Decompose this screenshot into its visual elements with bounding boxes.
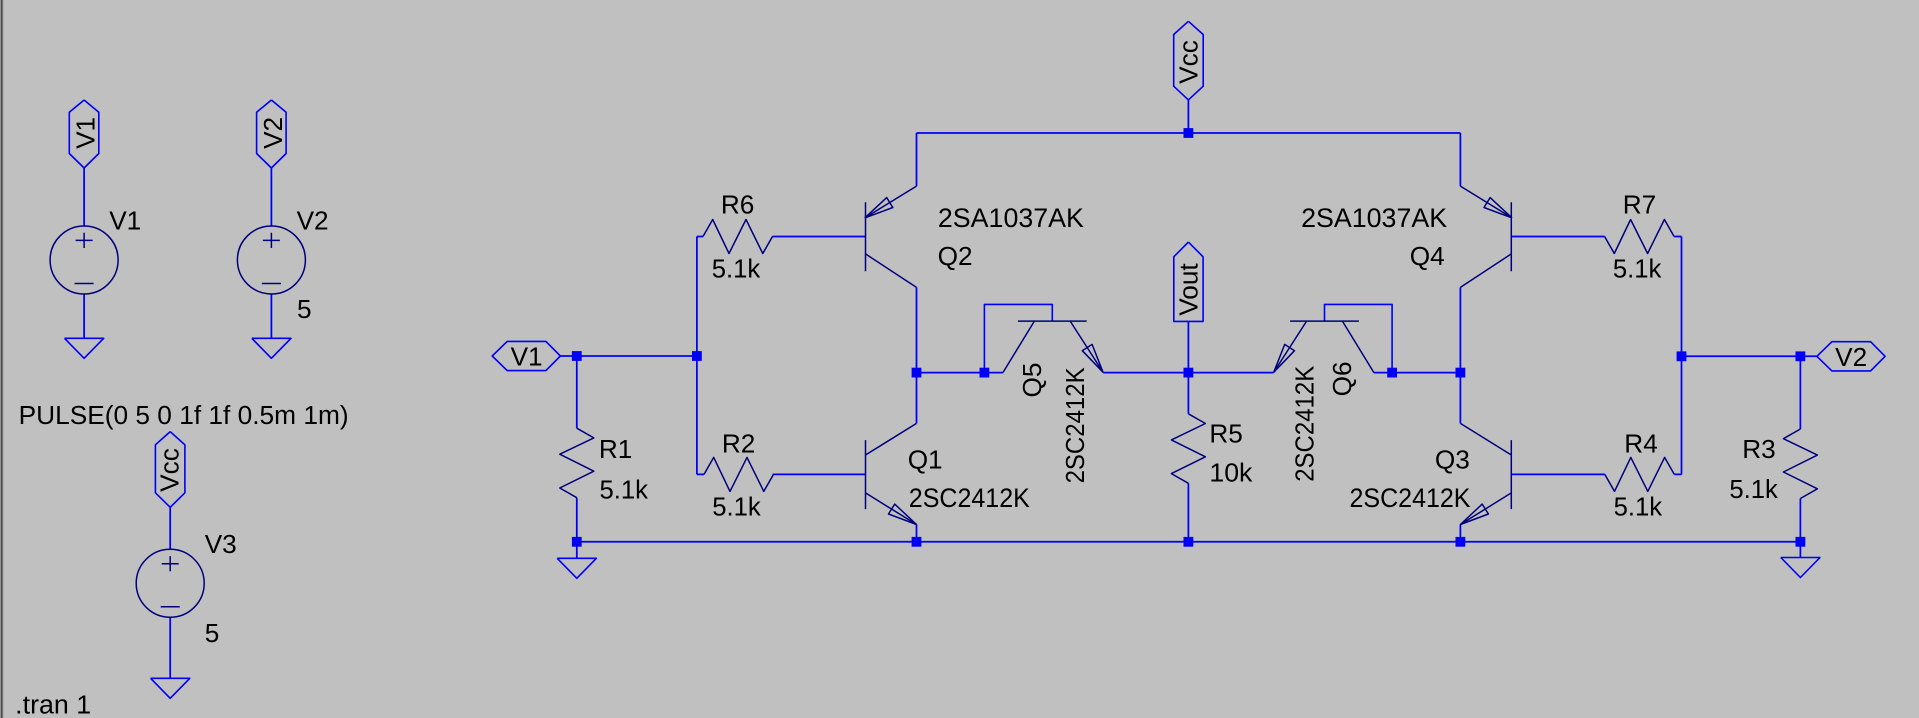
svg-text:Vcc: Vcc	[1174, 40, 1204, 84]
svg-text:V1: V1	[511, 341, 543, 371]
svg-text:2SA1037AK: 2SA1037AK	[938, 202, 1084, 233]
svg-text:R5: R5	[1209, 418, 1242, 448]
svg-text:Q1: Q1	[908, 444, 943, 474]
svg-text:V2: V2	[258, 117, 288, 149]
svg-text:Vout: Vout	[1174, 263, 1204, 316]
svg-text:R1: R1	[599, 434, 632, 464]
svg-text:R6: R6	[721, 190, 754, 220]
svg-text:2SC2412K: 2SC2412K	[1350, 482, 1471, 513]
svg-text:R3: R3	[1742, 434, 1775, 464]
svg-text:PULSE(0 5 0 1f 1f 0.5m 1m): PULSE(0 5 0 1f 1f 0.5m 1m)	[19, 400, 349, 430]
svg-text:.tran 1: .tran 1	[15, 689, 91, 718]
svg-text:V1: V1	[71, 117, 101, 149]
svg-text:5.1k: 5.1k	[600, 475, 649, 505]
svg-text:5.1k: 5.1k	[1729, 474, 1778, 504]
svg-text:V3: V3	[205, 529, 237, 559]
svg-text:Q3: Q3	[1435, 444, 1470, 474]
svg-text:V2: V2	[297, 206, 329, 236]
svg-text:Q5: Q5	[1017, 363, 1047, 398]
svg-text:Q4: Q4	[1410, 241, 1445, 271]
svg-text:2SC2412K: 2SC2412K	[1289, 365, 1319, 481]
svg-text:5: 5	[205, 618, 220, 648]
svg-text:Q6: Q6	[1327, 361, 1357, 396]
svg-text:R7: R7	[1623, 190, 1656, 220]
svg-text:5.1k: 5.1k	[712, 492, 761, 522]
svg-text:5.1k: 5.1k	[1613, 254, 1662, 284]
svg-text:V2: V2	[1835, 342, 1867, 372]
svg-text:R2: R2	[722, 428, 755, 458]
svg-text:R4: R4	[1624, 428, 1657, 458]
svg-text:5.1k: 5.1k	[712, 254, 761, 284]
svg-text:5.1k: 5.1k	[1614, 492, 1663, 522]
svg-text:5: 5	[297, 294, 312, 324]
svg-text:2SC2412K: 2SC2412K	[909, 482, 1030, 513]
svg-text:2SC2412K: 2SC2412K	[1060, 367, 1090, 483]
svg-text:Q2: Q2	[938, 241, 973, 271]
svg-text:Vcc: Vcc	[155, 448, 185, 492]
svg-text:2SA1037AK: 2SA1037AK	[1301, 202, 1447, 233]
svg-text:10k: 10k	[1209, 458, 1253, 488]
svg-text:V1: V1	[109, 206, 141, 236]
